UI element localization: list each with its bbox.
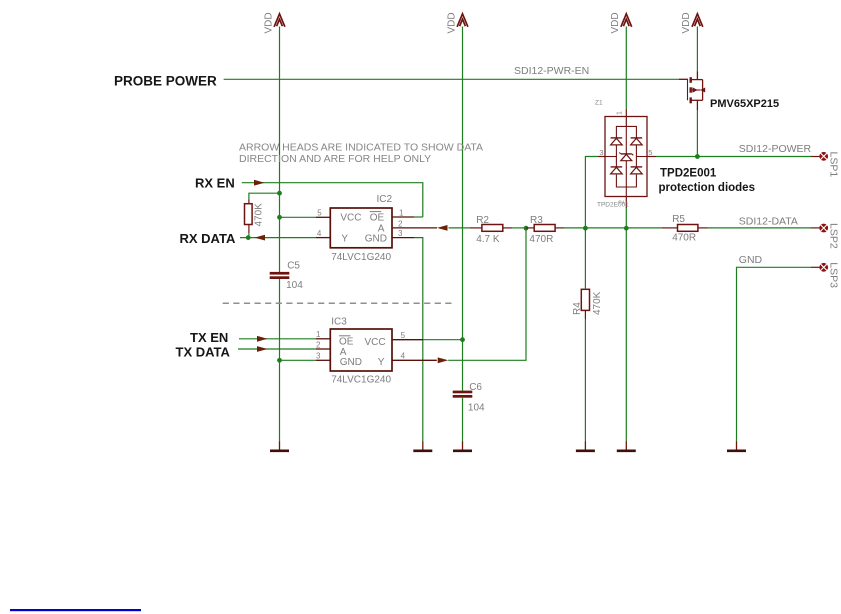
wire R4 bottom to ground	[584, 319, 586, 442]
svg-text:TX EN: TX EN	[190, 330, 228, 345]
svg-text:470R: 470R	[529, 234, 553, 245]
wire IC3 VCC to rail 2	[423, 339, 463, 341]
svg-text:GND: GND	[340, 357, 362, 368]
wire junction to R3 stub	[526, 227, 534, 229]
svg-text:2: 2	[398, 219, 403, 228]
dashed separator line	[223, 302, 455, 304]
svg-text:TPD2E001: TPD2E001	[597, 202, 629, 209]
svg-text:470K: 470K	[254, 203, 265, 227]
wire VDD rail 4 (x=697.4, VDD to Q1 drain)	[696, 27, 698, 72]
junction VDD / IC2 VCC	[277, 215, 282, 220]
svg-text:C5: C5	[287, 261, 300, 272]
wire VDD rail 1 upper (x=279.5, VDD to C5)	[279, 27, 281, 273]
arrowhead on TX EN (pointing right)	[257, 336, 268, 342]
IC2 pin 3 stub	[392, 237, 414, 239]
wire net TX_DATA	[238, 348, 316, 350]
wire VDD rail 3 (x=626.3, VDD to Z1 pin 1)	[625, 27, 627, 109]
svg-text:SDI12-POWER: SDI12-POWER	[739, 143, 812, 155]
diode D1 (top left)	[611, 137, 623, 139]
diode D4 (bottom right)	[631, 166, 643, 168]
svg-text:4.7 K: 4.7 K	[476, 234, 500, 245]
arrowhead on RX DATA (pointing left)	[255, 235, 266, 241]
svg-text:3: 3	[398, 229, 403, 238]
wire net RX_DATA	[240, 237, 316, 239]
junction R3/R4/Z1pin3	[583, 226, 588, 231]
junction IC3 VCC / rail 2	[460, 337, 465, 342]
svg-text:C6: C6	[469, 382, 482, 393]
svg-text:VDD: VDD	[681, 12, 692, 33]
wire net GND (pad to ground)	[737, 267, 812, 442]
arrowhead on IC3 Y output (pointing right)	[438, 357, 449, 363]
ground symbol under rail 2	[462, 442, 464, 451]
IC2 pin 1 stub	[392, 216, 414, 218]
svg-text:LSP3: LSP3	[828, 262, 840, 288]
junction Z1 bottom / DATA	[624, 226, 629, 231]
svg-text:5: 5	[317, 209, 322, 218]
arrowhead on IC2 A input (pointing left)	[437, 225, 448, 231]
resistor R5 body	[678, 225, 698, 232]
svg-text:R3: R3	[530, 215, 543, 226]
resistor R4 body	[581, 289, 589, 310]
resistor R1 bottom stub	[248, 225, 250, 234]
svg-text:GND: GND	[365, 234, 387, 245]
svg-text:2: 2	[316, 340, 321, 349]
Z1 internal pin 3 lead	[605, 156, 616, 158]
IC2 pin 5 stub	[316, 216, 330, 218]
wire VDD to resistor R1 top	[249, 193, 280, 199]
wire R5 right stub	[698, 227, 708, 229]
svg-text:LSP2: LSP2	[828, 223, 840, 249]
ground symbol under rail 1	[279, 442, 281, 451]
R4 bottom stub	[584, 310, 586, 319]
wire IC2 pin3 to ground	[414, 238, 423, 442]
ground symbol under Z1	[625, 442, 627, 451]
svg-text:1: 1	[399, 208, 404, 217]
svg-text:5: 5	[648, 148, 652, 157]
junction Q1 source / SDI12-POWER	[695, 154, 700, 159]
Z1 center line upper	[625, 126, 627, 153]
svg-text:TX DATA: TX DATA	[176, 344, 231, 359]
power symbol VDD (net 2, x=462)	[457, 14, 468, 27]
IC3 pin 3 stub	[316, 359, 330, 361]
svg-text:DIRECTION AND ARE FOR HELP ONL: DIRECTION AND ARE FOR HELP ONLY	[239, 153, 431, 165]
ground symbol under R4	[584, 442, 586, 451]
Z1 pin 3 stub	[598, 156, 605, 158]
svg-text:SDI12-DATA: SDI12-DATA	[739, 215, 798, 227]
svg-text:Y: Y	[341, 234, 348, 245]
svg-text:470R: 470R	[672, 233, 696, 244]
wire SDI12-DATA pad stub	[811, 227, 819, 229]
svg-text:Z1: Z1	[595, 100, 603, 107]
svg-text:3: 3	[316, 352, 321, 361]
svg-text:104: 104	[468, 402, 485, 413]
diode D2 (top right)	[631, 137, 643, 139]
svg-text:5: 5	[401, 331, 406, 340]
wire R1 bottom to RX DATA	[248, 233, 250, 238]
IC2 pin 2 stub	[392, 227, 437, 229]
svg-text:RX EN: RX EN	[195, 176, 235, 191]
svg-text:ARROW HEADS ARE INDICATED TO S: ARROW HEADS ARE INDICATED TO SHOW DATA	[239, 142, 483, 154]
svg-text:470K: 470K	[592, 291, 603, 315]
wire Z1 pin3 branch (left then down to DATA)	[585, 157, 598, 229]
wire IC2 A to R2	[449, 227, 471, 229]
svg-text:TPD2E001: TPD2E001	[660, 168, 717, 180]
svg-text:protection diodes: protection diodes	[659, 182, 755, 194]
Z1 internal pin 5 lead	[636, 156, 647, 158]
transistor Q1 PMV65XP215 (P-MOSFET)	[679, 72, 705, 111]
Z1 bottom pin stub	[625, 197, 627, 209]
svg-text:104: 104	[286, 280, 303, 291]
Z1 pin 5 stub	[647, 156, 656, 158]
wire net SDI12-PWR-EN (PROBE POWER to Q1 gate)	[224, 78, 679, 80]
svg-text:1: 1	[316, 330, 321, 339]
power symbol VDD (net 4, x=697)	[692, 14, 703, 27]
wire net RX_EN	[242, 183, 423, 217]
capacitor C5 plates	[270, 272, 290, 275]
arrowhead on RX EN (pointing right)	[254, 180, 265, 186]
wire R5 left stub	[662, 227, 678, 229]
svg-text:3: 3	[599, 148, 603, 157]
svg-text:RX DATA: RX DATA	[180, 231, 236, 246]
net SDI12-DATA mid segment	[585, 227, 662, 229]
wire rail 2 lower (C6 to ground)	[462, 398, 464, 442]
wire GND pad stub	[811, 266, 819, 268]
wire R2 right stub	[503, 227, 512, 229]
svg-text:Y: Y	[378, 357, 385, 368]
Z1 inner frame	[616, 126, 636, 187]
zener diode (center)	[621, 153, 632, 155]
svg-text:1: 1	[617, 111, 624, 115]
wire R2 to junction	[512, 227, 526, 229]
arrowhead on TX DATA (pointing right)	[257, 346, 268, 352]
svg-text:4: 4	[317, 229, 322, 238]
wire VDD rail to IC2 pin 5	[280, 216, 317, 218]
resistor R1 470K top stub	[248, 200, 250, 204]
op-amp buffer IC3 74LVC1G240 box	[330, 329, 392, 371]
wire SDI12-POWER pad stub	[811, 156, 819, 158]
resistor R3 body	[534, 225, 555, 232]
wire R3 to R4 junction	[564, 227, 585, 229]
resistor R1 470K body	[245, 204, 253, 225]
wire net TX_EN	[239, 338, 316, 340]
wire net SDI12-DATA to pad	[708, 227, 812, 229]
wire IC3 pin3 to rail (ground net)	[280, 359, 317, 361]
Q1 gate stub	[679, 78, 688, 80]
wire VDD rail 2 upper (x=462.5, VDD to C6)	[462, 27, 464, 391]
svg-text:VDD: VDD	[263, 12, 274, 33]
blue underline (bottom left)	[10, 609, 141, 611]
junction R1 / RX DATA	[246, 235, 251, 240]
wire Q1 source to SDI12-POWER junction	[696, 110, 698, 157]
svg-text:4: 4	[401, 352, 406, 361]
svg-text:R5: R5	[672, 214, 685, 225]
pad LSP3	[819, 263, 828, 272]
wire R4 top	[584, 228, 586, 289]
Z1 pin 1 stub (top)	[625, 109, 627, 127]
wire Z1 bottom pin to SDI12-DATA junction and ground	[625, 208, 627, 442]
svg-text:74LVC1G240: 74LVC1G240	[331, 252, 391, 263]
ground symbol under GND net	[736, 442, 738, 451]
junction R2/R3/IC3-Y	[524, 226, 529, 231]
svg-text:PMV65XP215: PMV65XP215	[710, 98, 779, 110]
diode array Z1 TPD2E001 outer box	[605, 117, 647, 197]
svg-text:IC3: IC3	[331, 316, 347, 327]
svg-text:74LVC1G240: 74LVC1G240	[331, 375, 391, 386]
pad LSP2	[819, 224, 828, 233]
svg-text:R4: R4	[572, 302, 583, 315]
power symbol VDD (net 3, x=626)	[621, 14, 632, 27]
svg-text:R2: R2	[476, 215, 489, 226]
IC3 pin 4 stub	[392, 359, 437, 361]
IC3 pin 2 stub	[316, 348, 330, 350]
capacitor C6 plates	[453, 391, 473, 394]
svg-text:VCC: VCC	[365, 337, 386, 348]
power symbol VDD (net 1, x=279)	[274, 14, 285, 27]
resistor R2 body	[482, 225, 503, 232]
wire rail 1 lower (C5 to ground)	[279, 279, 281, 442]
svg-text:VDD: VDD	[446, 12, 457, 33]
diode D3 (bottom left)	[611, 166, 623, 168]
svg-text:VDD: VDD	[610, 12, 621, 33]
junction IC3 GND / rail 1	[277, 358, 282, 363]
svg-text:VCC: VCC	[340, 213, 361, 224]
svg-text:IC2: IC2	[377, 194, 393, 205]
svg-text:OE: OE	[370, 212, 385, 223]
wire net SDI12-POWER	[656, 156, 811, 158]
wire IC2 pin1 corner	[414, 216, 423, 218]
svg-text:GND: GND	[739, 254, 763, 266]
Z1 center line lower	[625, 161, 627, 197]
svg-text:PROBE POWER: PROBE POWER	[114, 74, 217, 89]
junction pull-up top branch	[277, 191, 282, 196]
svg-text:SDI12-PWR-EN: SDI12-PWR-EN	[514, 65, 589, 77]
wire R2 left stub	[470, 227, 482, 229]
svg-text:LSP1: LSP1	[828, 152, 840, 178]
wire R3 right stub	[555, 227, 564, 229]
wire IC3 Y to DATA junction	[448, 228, 526, 360]
IC2 pin 4 stub	[316, 237, 330, 239]
IC3 pin 5 stub	[392, 339, 423, 341]
ground symbol under IC2	[422, 442, 424, 451]
pad LSP1	[819, 152, 828, 161]
IC3 pin 1 stub	[316, 338, 330, 340]
op-amp buffer IC2 74LVC1G240 box	[330, 208, 392, 248]
